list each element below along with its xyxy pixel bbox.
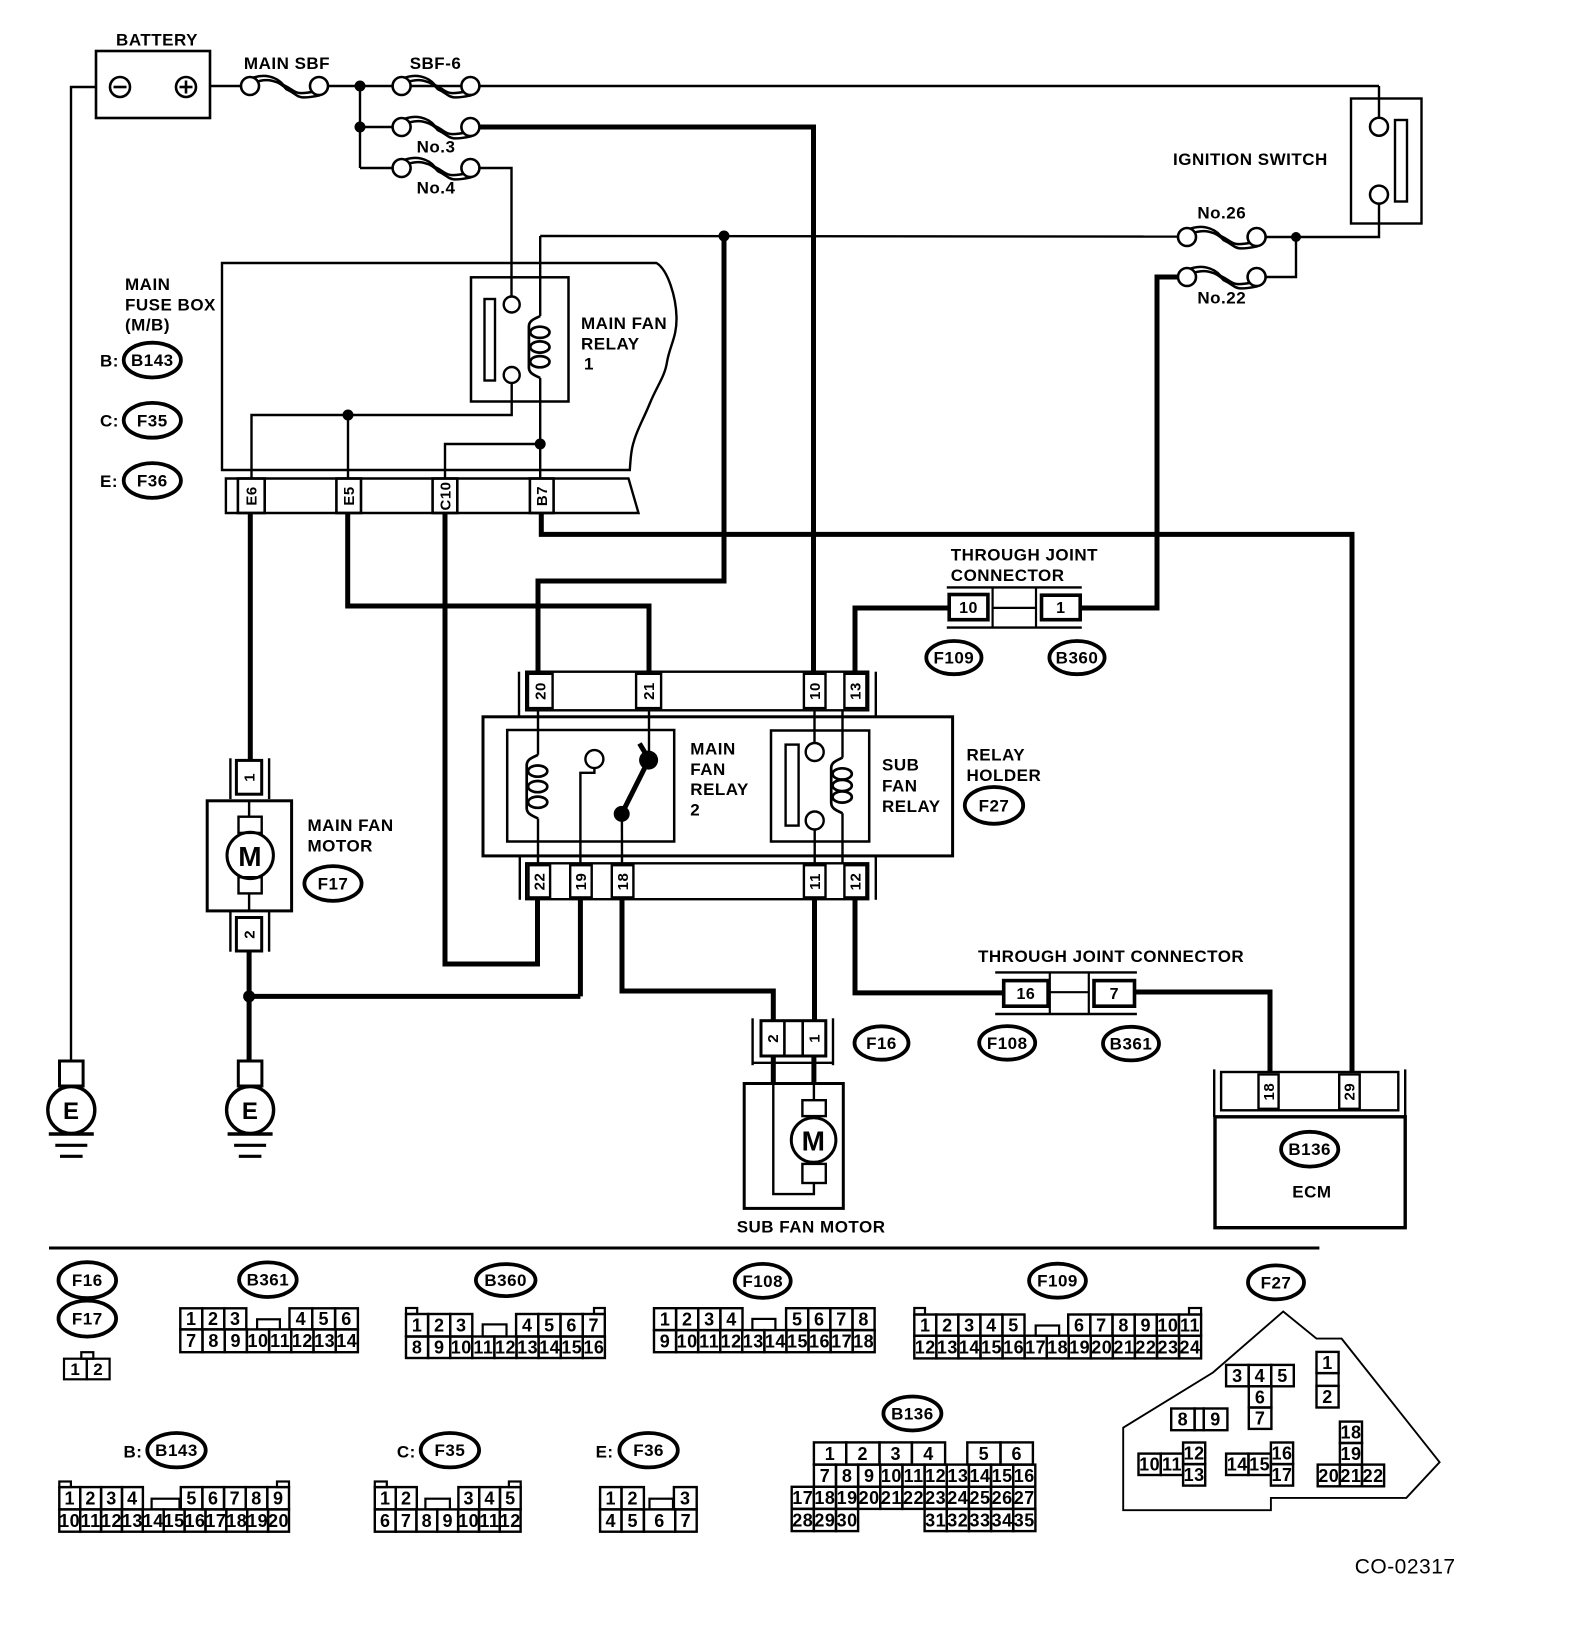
wire blade to pin 18	[621, 814, 623, 863]
svg-text:3: 3	[464, 1489, 475, 1509]
svg-text:5: 5	[544, 1316, 555, 1336]
F27 cell 18	[1340, 1422, 1362, 1443]
svg-text:10: 10	[677, 1332, 698, 1352]
svg-text:12: 12	[848, 873, 865, 891]
main fan relay 1 switch contacts	[504, 297, 520, 313]
F27 cells 20 21 22	[1318, 1465, 1340, 1487]
svg-text:7: 7	[186, 1331, 197, 1351]
svg-text:7: 7	[230, 1489, 241, 1509]
svg-text:10: 10	[959, 600, 978, 617]
wire B7 to ECM pin 29 (thick)	[541, 513, 1352, 1072]
svg-text:18: 18	[853, 1332, 874, 1352]
svg-text:SUB: SUB	[882, 756, 919, 775]
junction node No.3 branch	[355, 122, 366, 133]
svg-text:10: 10	[451, 1338, 472, 1358]
svg-text:6: 6	[1074, 1316, 1085, 1336]
reference B361 view	[239, 1262, 297, 1297]
svg-text:9: 9	[442, 1511, 453, 1531]
svg-text:C:: C:	[397, 1443, 416, 1462]
ECM pin 18	[1259, 1074, 1279, 1108]
svg-text:31: 31	[925, 1510, 946, 1530]
pin 13	[844, 674, 866, 708]
main fan relay 2 switch blade	[640, 744, 649, 760]
svg-text:22: 22	[903, 1488, 924, 1508]
reference F17 view	[59, 1301, 117, 1337]
wire junction to fuse box connector C10	[445, 444, 540, 479]
svg-text:6: 6	[566, 1316, 577, 1336]
svg-text:F35: F35	[137, 411, 168, 430]
connector F35 view	[375, 1482, 387, 1488]
svg-text:No.22: No.22	[1197, 289, 1246, 308]
sub fan relay switch contacts	[806, 743, 824, 761]
wire pin 11 to sub fan motor (thick)	[812, 898, 817, 1022]
battery	[96, 51, 210, 118]
reference F27 view	[1248, 1265, 1304, 1299]
main fan motor connector 1	[229, 758, 231, 799]
svg-text:1: 1	[241, 773, 258, 782]
svg-text:5: 5	[186, 1489, 197, 1509]
svg-text:C10: C10	[437, 481, 454, 510]
svg-text:SUB FAN MOTOR: SUB FAN MOTOR	[737, 1218, 886, 1237]
wire junction to relay holder pin 19 (thick)	[249, 994, 580, 999]
svg-text:30: 30	[837, 1510, 858, 1530]
svg-text:6: 6	[814, 1310, 825, 1330]
connector F36 view	[600, 1487, 621, 1509]
svg-text:7: 7	[836, 1310, 847, 1330]
svg-text:17: 17	[792, 1488, 813, 1508]
reference F108	[979, 1026, 1035, 1060]
connector E5	[336, 479, 361, 514]
sub fan motor	[744, 1084, 843, 1209]
F27 cell 12	[1183, 1443, 1205, 1465]
svg-text:13: 13	[314, 1331, 335, 1351]
wire terminal 7 to ECM pin 18 (thick)	[1135, 992, 1271, 1072]
svg-text:F17: F17	[72, 1310, 103, 1329]
svg-text:17: 17	[205, 1511, 226, 1531]
svg-text:14: 14	[143, 1511, 164, 1531]
svg-text:4: 4	[923, 1444, 934, 1464]
wire MAIN SBF to SBF-6 and ignition switch line	[328, 85, 1379, 87]
svg-text:4: 4	[726, 1310, 737, 1330]
svg-text:9: 9	[434, 1338, 445, 1358]
svg-text:15: 15	[981, 1337, 1002, 1357]
svg-text:6: 6	[654, 1511, 665, 1531]
wire contact to pin 19	[580, 768, 594, 863]
connector B360 view	[406, 1308, 417, 1314]
svg-text:14: 14	[765, 1332, 786, 1352]
svg-text:14: 14	[959, 1337, 980, 1357]
svg-text:9: 9	[864, 1466, 875, 1486]
svg-text:5: 5	[627, 1511, 638, 1531]
svg-text:2: 2	[682, 1310, 693, 1330]
svg-text:14: 14	[336, 1331, 357, 1351]
svg-text:18: 18	[1047, 1337, 1068, 1357]
svg-text:F16: F16	[72, 1271, 103, 1290]
svg-text:11: 11	[270, 1331, 290, 1351]
svg-text:13: 13	[1184, 1465, 1205, 1485]
svg-text:9: 9	[231, 1331, 242, 1351]
svg-text:6: 6	[208, 1489, 219, 1509]
svg-text:24: 24	[1179, 1337, 1200, 1357]
svg-text:9: 9	[660, 1332, 671, 1352]
svg-text:10: 10	[1139, 1455, 1160, 1475]
svg-text:2: 2	[93, 1360, 103, 1379]
pin 22	[529, 865, 551, 897]
svg-text:21: 21	[1113, 1337, 1134, 1357]
svg-text:7: 7	[1255, 1409, 1266, 1429]
svg-text:15: 15	[992, 1466, 1013, 1486]
svg-text:1: 1	[584, 355, 594, 374]
svg-text:20: 20	[533, 682, 550, 700]
F27 cell 16	[1271, 1443, 1293, 1465]
fuse No.26	[1187, 227, 1258, 249]
svg-text:C:: C:	[100, 412, 119, 431]
svg-text:4: 4	[484, 1489, 495, 1509]
wire motor connector 2 to ground (thick)	[247, 951, 252, 1061]
wire junction to fuse No.22	[1266, 237, 1296, 277]
svg-text:18: 18	[1340, 1423, 1361, 1443]
svg-text:8: 8	[412, 1338, 423, 1358]
svg-text:19: 19	[573, 873, 590, 891]
svg-text:3: 3	[704, 1310, 715, 1330]
svg-text:MAIN: MAIN	[690, 740, 735, 759]
svg-text:32: 32	[947, 1510, 968, 1530]
F27 cell 2	[1317, 1386, 1339, 1408]
wire fuse No.26 to main fan relay 1 coil	[540, 235, 1178, 238]
svg-text:18: 18	[226, 1511, 247, 1531]
sub fan relay switch bar	[786, 745, 799, 826]
svg-text:26: 26	[992, 1488, 1013, 1508]
svg-text:13: 13	[937, 1337, 958, 1357]
relay holder upper strip	[518, 672, 520, 717]
svg-text:16: 16	[1271, 1444, 1292, 1464]
svg-text:10: 10	[807, 682, 824, 700]
separator line	[49, 1247, 1319, 1250]
svg-text:RELAY: RELAY	[690, 780, 749, 799]
svg-text:13: 13	[122, 1511, 143, 1531]
svg-text:3: 3	[1232, 1366, 1243, 1386]
svg-text:B143: B143	[131, 351, 174, 370]
svg-text:MOTOR: MOTOR	[308, 836, 373, 855]
svg-text:B:: B:	[100, 352, 119, 371]
svg-text:21: 21	[881, 1488, 902, 1508]
svg-text:9: 9	[1210, 1410, 1221, 1430]
svg-text:RELAY: RELAY	[581, 334, 640, 353]
svg-text:B136: B136	[1288, 1140, 1331, 1159]
connector B7	[530, 479, 554, 514]
connector B136 view row 2	[814, 1465, 836, 1487]
ECM connector strip	[1213, 1069, 1215, 1117]
svg-text:RELAY: RELAY	[967, 746, 1026, 765]
wire top line to ignition switch	[1378, 86, 1380, 118]
connector F16/F17 view	[81, 1352, 93, 1359]
svg-text:14: 14	[539, 1338, 560, 1358]
pin 20	[528, 674, 553, 708]
connector F108 view	[654, 1308, 676, 1330]
pin 21	[636, 674, 661, 708]
svg-text:5: 5	[792, 1310, 803, 1330]
F27 cells 8 9	[1171, 1409, 1194, 1431]
svg-text:12: 12	[721, 1332, 742, 1352]
svg-text:12: 12	[101, 1511, 122, 1531]
reference F16	[855, 1026, 909, 1059]
svg-text:5: 5	[1277, 1366, 1288, 1386]
svg-text:1: 1	[606, 1489, 617, 1509]
svg-text:13: 13	[947, 1466, 968, 1486]
svg-text:11: 11	[699, 1332, 719, 1352]
svg-text:4: 4	[986, 1316, 997, 1336]
svg-text:22: 22	[532, 873, 549, 891]
reference F16 view	[59, 1262, 117, 1298]
svg-text:12: 12	[925, 1466, 946, 1486]
svg-text:7: 7	[820, 1466, 831, 1486]
junction node motor ground	[243, 990, 255, 1002]
svg-text:5: 5	[979, 1444, 990, 1464]
svg-text:15: 15	[561, 1338, 582, 1358]
svg-text:22: 22	[1135, 1337, 1156, 1357]
svg-text:21: 21	[641, 682, 658, 700]
svg-text:8: 8	[251, 1489, 262, 1509]
F27 cells 10 11	[1139, 1454, 1161, 1475]
battery negative terminal	[110, 77, 130, 97]
svg-text:7: 7	[1110, 986, 1119, 1003]
svg-text:6: 6	[1011, 1444, 1022, 1464]
wire junction to fuse No.4	[360, 167, 393, 169]
svg-text:12: 12	[495, 1338, 516, 1358]
fuse No.3	[402, 117, 472, 139]
svg-text:IGNITION SWITCH: IGNITION SWITCH	[1173, 150, 1328, 169]
svg-text:15: 15	[787, 1332, 808, 1352]
svg-text:16: 16	[1003, 1337, 1024, 1357]
svg-text:THROUGH JOINT CONNECTOR: THROUGH JOINT CONNECTOR	[978, 947, 1244, 966]
svg-text:MAIN FAN: MAIN FAN	[581, 314, 667, 333]
sub fan relay coil	[841, 710, 843, 757]
svg-text:1: 1	[1056, 600, 1065, 617]
svg-text:8: 8	[858, 1310, 869, 1330]
svg-text:F35: F35	[435, 1441, 466, 1460]
fuse SBF-6	[402, 76, 472, 98]
svg-text:20: 20	[859, 1488, 880, 1508]
svg-text:F27: F27	[1261, 1273, 1292, 1292]
svg-text:1: 1	[70, 1360, 80, 1379]
F27 cell 6	[1249, 1386, 1272, 1407]
svg-text:16: 16	[583, 1338, 604, 1358]
svg-text:10: 10	[1157, 1316, 1178, 1336]
F27 cell 19	[1340, 1443, 1362, 1465]
wire pin 18 to sub fan motor (thick)	[622, 898, 773, 1022]
svg-text:7: 7	[589, 1316, 600, 1336]
reference B360	[1049, 641, 1104, 674]
terminal 10	[949, 595, 988, 620]
svg-text:B136: B136	[891, 1405, 934, 1424]
svg-text:34: 34	[992, 1510, 1013, 1530]
main fan relay 2	[507, 730, 674, 842]
ECM body	[1215, 1117, 1405, 1228]
terminal 7	[1094, 981, 1135, 1007]
reference F17	[304, 866, 361, 901]
reference F108 view	[735, 1264, 791, 1298]
wire junction down to relay holder pin 20 (thick)	[538, 236, 724, 673]
svg-text:E6: E6	[244, 486, 261, 505]
svg-text:4: 4	[606, 1511, 617, 1531]
wire pin 13 to through joint connector (thick)	[855, 608, 949, 673]
wire battery positive to MAIN SBF fuse	[210, 85, 241, 87]
reference B361	[1103, 1027, 1159, 1061]
svg-text:4: 4	[127, 1489, 138, 1509]
svg-text:10: 10	[59, 1511, 80, 1531]
svg-text:2: 2	[942, 1316, 953, 1336]
svg-text:12: 12	[915, 1337, 936, 1357]
svg-text:MAIN SBF: MAIN SBF	[244, 54, 330, 73]
svg-text:2: 2	[690, 800, 700, 819]
relay holder lower strip	[519, 856, 521, 900]
svg-text:F36: F36	[137, 472, 168, 491]
connector B136 view row 3	[792, 1487, 814, 1509]
svg-text:11: 11	[1162, 1455, 1182, 1475]
reference B136	[1281, 1132, 1338, 1167]
svg-text:BATTERY: BATTERY	[116, 31, 198, 50]
svg-text:9: 9	[273, 1489, 284, 1509]
svg-text:3: 3	[680, 1489, 691, 1509]
svg-text:23: 23	[1157, 1337, 1178, 1357]
svg-text:RELAY: RELAY	[882, 797, 941, 816]
svg-text:CONNECTOR: CONNECTOR	[951, 566, 1065, 585]
svg-text:18: 18	[1261, 1083, 1278, 1101]
svg-text:10: 10	[247, 1331, 268, 1351]
F27 cells 3 4 5	[1226, 1365, 1249, 1386]
svg-text:E5: E5	[341, 486, 358, 505]
connector F109 view	[914, 1308, 925, 1315]
svg-text:3: 3	[106, 1489, 117, 1509]
wire junction to connector E5	[347, 415, 349, 479]
svg-text:HOLDER: HOLDER	[967, 766, 1042, 785]
pin 19	[570, 865, 592, 897]
main fan relay 1 switch bar	[485, 299, 496, 381]
svg-text:17: 17	[1271, 1465, 1292, 1485]
main fan relay 1 coil	[539, 236, 541, 316]
svg-text:2: 2	[627, 1489, 638, 1509]
svg-text:7: 7	[681, 1511, 692, 1531]
svg-text:2: 2	[434, 1316, 445, 1336]
wire fuse No.22 to through joint connector (thick)	[1080, 277, 1178, 608]
F27 cell 13	[1183, 1464, 1205, 1486]
svg-text:B360: B360	[484, 1271, 527, 1290]
svg-text:7: 7	[1096, 1316, 1107, 1336]
F27 blank cell	[1317, 1373, 1339, 1386]
main fuse box (M/B)	[222, 263, 677, 470]
svg-text:6: 6	[1255, 1387, 1266, 1407]
reference B360 view	[476, 1264, 536, 1296]
connector B136 view row 4	[792, 1509, 814, 1531]
connector B143 view	[59, 1482, 71, 1488]
svg-text:E: E	[63, 1098, 80, 1125]
svg-text:B143: B143	[155, 1441, 198, 1460]
svg-text:20: 20	[268, 1511, 289, 1531]
svg-text:B7: B7	[534, 486, 551, 506]
main fan relay 2 coil	[537, 710, 539, 755]
pin 18	[612, 865, 634, 897]
svg-text:18: 18	[814, 1488, 835, 1508]
svg-text:No.26: No.26	[1197, 204, 1246, 223]
svg-text:F108: F108	[742, 1272, 783, 1291]
F27 cells 14 15	[1226, 1454, 1248, 1475]
svg-text:1: 1	[825, 1444, 836, 1464]
svg-text:3: 3	[890, 1444, 901, 1464]
connector E6	[238, 479, 265, 514]
svg-text:FAN: FAN	[882, 776, 918, 795]
svg-text:5: 5	[505, 1489, 516, 1509]
svg-text:12: 12	[500, 1511, 521, 1531]
svg-text:21: 21	[1340, 1466, 1361, 1486]
svg-text:MAIN: MAIN	[125, 275, 170, 294]
svg-text:SBF-6: SBF-6	[410, 54, 462, 73]
svg-text:CO-02317: CO-02317	[1355, 1556, 1456, 1579]
svg-text:35: 35	[1014, 1510, 1035, 1530]
reference F27	[965, 787, 1023, 824]
svg-text:4: 4	[1255, 1366, 1266, 1386]
svg-text:6: 6	[380, 1511, 391, 1531]
sub fan motor connector	[751, 1018, 753, 1065]
ignition switch	[1351, 99, 1422, 224]
svg-text:F17: F17	[318, 875, 349, 894]
svg-text:22: 22	[1363, 1466, 1384, 1486]
ECM pin 29	[1339, 1074, 1360, 1108]
svg-text:17: 17	[1025, 1337, 1046, 1357]
pin 10	[804, 674, 826, 708]
svg-text:3: 3	[964, 1316, 975, 1336]
svg-text:15: 15	[1249, 1455, 1270, 1475]
svg-text:23: 23	[925, 1488, 946, 1508]
junction node ignition feed	[1291, 232, 1301, 242]
wire relay 1 switch to connectors E6/E5	[252, 383, 512, 479]
svg-text:19: 19	[1069, 1337, 1090, 1357]
svg-text:1: 1	[1322, 1353, 1333, 1373]
svg-text:1: 1	[660, 1310, 671, 1330]
svg-text:20: 20	[1091, 1337, 1112, 1357]
svg-text:F109: F109	[1037, 1272, 1078, 1291]
junction node switch/E5	[343, 410, 354, 421]
svg-text:20: 20	[1318, 1466, 1339, 1486]
wire E5 to relay holder pin 21 (thick)	[348, 513, 649, 673]
svg-text:25: 25	[969, 1488, 990, 1508]
svg-text:28: 28	[792, 1510, 813, 1530]
F27 cell 7	[1249, 1408, 1272, 1429]
svg-text:11: 11	[1180, 1316, 1200, 1336]
svg-text:6: 6	[341, 1309, 352, 1329]
battery positive terminal	[176, 77, 196, 97]
connector C10	[433, 479, 458, 514]
wire E6 to main fan motor (thick)	[248, 513, 253, 760]
main fan motor	[207, 801, 291, 911]
junction node battery feed	[355, 81, 366, 92]
svg-text:(M/B): (M/B)	[125, 316, 170, 335]
svg-text:1: 1	[920, 1316, 931, 1336]
svg-text:9: 9	[1140, 1316, 1151, 1336]
svg-text:13: 13	[743, 1332, 764, 1352]
svg-text:F36: F36	[633, 1441, 664, 1460]
svg-text:13: 13	[517, 1338, 538, 1358]
connector F27 relay holder outline	[1123, 1312, 1439, 1511]
main fan relay 2 fixed contact	[585, 750, 603, 768]
main fuse box connector strip	[226, 479, 639, 514]
svg-text:8: 8	[1178, 1410, 1189, 1430]
ground E (main fan motor)	[238, 1061, 262, 1086]
wire C10 to relay holder pin 22 (thick)	[445, 513, 538, 964]
svg-text:11: 11	[904, 1466, 924, 1486]
svg-text:2: 2	[401, 1489, 412, 1509]
svg-text:FAN: FAN	[690, 760, 726, 779]
svg-text:E:: E:	[100, 472, 118, 491]
